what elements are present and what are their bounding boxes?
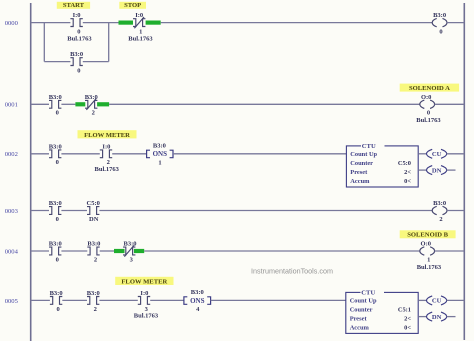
wire contact I:0/0 to STOP <box>83 22 119 24</box>
wire rung 1 rail to contact <box>31 103 49 105</box>
svg-text:1: 1 <box>158 160 161 167</box>
counter block CTU C5:1 box <box>346 292 418 333</box>
wire rung4 to solenoid B <box>144 250 420 252</box>
svg-text:0002: 0002 <box>5 151 18 158</box>
label SOLENOID B <box>400 230 456 238</box>
green highlight B3:0/3 left <box>114 249 125 253</box>
svg-text:ONS: ONS <box>190 297 205 305</box>
svg-text:0003: 0003 <box>5 208 19 215</box>
svg-text:Bul.1763: Bul.1763 <box>95 166 120 173</box>
svg-text:0: 0 <box>56 110 59 117</box>
svg-text:C5:0: C5:0 <box>398 160 411 167</box>
svg-text:0: 0 <box>77 67 80 74</box>
svg-text:B3:0: B3:0 <box>49 241 62 248</box>
wire rung 2 rail to contact <box>31 153 49 155</box>
svg-text:FLOW METER: FLOW METER <box>84 132 130 139</box>
contact FLOW METER I:0/2 <box>100 150 112 158</box>
contact B3:0/0 rung1 <box>49 100 61 108</box>
green highlight STOP left <box>119 21 134 25</box>
green highlight B3:0/2 left <box>75 102 85 106</box>
svg-text:2: 2 <box>439 216 442 223</box>
svg-text:CU: CU <box>432 151 442 158</box>
wire rung5 c3-ONS <box>150 299 183 301</box>
wire rung3 c1-c2 <box>61 210 87 212</box>
svg-text:2<: 2< <box>404 315 411 322</box>
coil SOLENOID B O:0/1 <box>420 247 435 255</box>
contact C5:0/DN <box>87 207 99 215</box>
svg-text:Bul.1763: Bul.1763 <box>128 36 153 43</box>
wire rung3 coil to rail <box>447 210 464 212</box>
wire rung 3 rail to contact <box>31 210 49 212</box>
wire ONS to CTU <box>173 153 346 155</box>
svg-text:C5:1: C5:1 <box>398 306 411 313</box>
svg-text:I:0: I:0 <box>140 290 148 297</box>
svg-text:Preset: Preset <box>350 315 368 322</box>
contact B3:0/2 (NC) rung1 <box>85 99 97 110</box>
wire rung 4 rail to contact <box>31 250 49 252</box>
svg-text:ONS: ONS <box>153 150 168 158</box>
svg-text:Bul.1763: Bul.1763 <box>134 313 159 320</box>
one-shot ONS B3:0/1 <box>147 150 173 158</box>
svg-text:0: 0 <box>56 306 59 313</box>
coil SOLENOID A O:0/0 <box>420 100 435 108</box>
coil DN rung5 <box>427 312 447 321</box>
svg-text:I:0: I:0 <box>73 12 81 19</box>
wire CTU to DN coil rung5 <box>418 316 426 318</box>
label START <box>57 2 90 9</box>
contact B3:0/3 (NC) rung4 <box>123 245 135 256</box>
svg-text:Count Up: Count Up <box>350 297 377 304</box>
contact B3:0/0 rung5 <box>50 297 62 305</box>
contact B3:0/0 seal-in <box>70 58 82 66</box>
contact START I:0/0 <box>70 19 82 27</box>
coil B3:0/0 <box>432 18 447 26</box>
svg-text:4: 4 <box>196 306 200 313</box>
wire CTU to CU coil rung5 <box>418 299 426 301</box>
wire DN coil stub <box>447 169 456 171</box>
coil B3:0/2 <box>432 206 447 214</box>
svg-text:1: 1 <box>139 28 142 35</box>
green highlight STOP right <box>146 21 161 25</box>
coil DN rung2 <box>427 166 447 175</box>
wire rung2 c2-ONS <box>112 153 146 155</box>
svg-text:B3:0: B3:0 <box>87 241 100 248</box>
branch wire right <box>83 61 109 63</box>
wire rung4 c1-c2 <box>61 250 87 252</box>
contact FLOW METER I:0/3 <box>138 297 150 305</box>
svg-text:Accum: Accum <box>350 178 370 185</box>
svg-text:Bul.1763: Bul.1763 <box>417 264 442 271</box>
svg-text:B3:0: B3:0 <box>433 200 446 207</box>
svg-text:0<: 0< <box>404 325 411 332</box>
wire rung4 c2-c3 <box>100 250 114 252</box>
branch left vertical <box>43 23 45 62</box>
green highlight B3:0/2 right <box>97 102 109 106</box>
svg-text:0005: 0005 <box>5 298 19 305</box>
label FLOW METER rung5 <box>115 277 173 285</box>
svg-text:I:0: I:0 <box>135 12 143 19</box>
svg-text:DN: DN <box>432 167 442 174</box>
branch right vertical <box>108 23 110 62</box>
label SOLENOID A <box>400 84 459 92</box>
branch wire left <box>44 61 70 63</box>
svg-text:C5:0: C5:0 <box>87 200 100 207</box>
svg-text:O:0: O:0 <box>421 94 431 101</box>
svg-text:0: 0 <box>56 216 59 223</box>
svg-text:0: 0 <box>427 110 430 117</box>
wire between contacts rung1 <box>61 103 75 105</box>
svg-text:STOP: STOP <box>124 2 141 9</box>
svg-text:B3:0: B3:0 <box>70 51 83 58</box>
contact STOP I:0/1 (NC) <box>133 17 145 28</box>
svg-text:B3:0: B3:0 <box>191 289 204 296</box>
svg-text:Counter: Counter <box>350 306 373 313</box>
wire solenoid B coil to rail <box>435 250 465 252</box>
svg-text:B3:0: B3:0 <box>433 12 446 19</box>
svg-text:START: START <box>63 2 85 9</box>
svg-text:2: 2 <box>94 256 97 263</box>
svg-text:CTU: CTU <box>361 290 375 297</box>
label FLOW METER rung2 <box>78 130 137 138</box>
svg-text:Counter: Counter <box>350 160 373 167</box>
svg-text:InstrumentationTools.com: InstrumentationTools.com <box>251 267 333 276</box>
contact B3:0/2 rung4 <box>87 247 99 255</box>
svg-text:O:0: O:0 <box>421 241 431 248</box>
wire rung5 c2-c3 <box>99 299 137 301</box>
svg-text:B3:0: B3:0 <box>49 94 62 101</box>
svg-text:FLOW METER: FLOW METER <box>121 278 167 285</box>
wire ONS to CTU rung5 <box>211 299 346 301</box>
svg-text:B3:0: B3:0 <box>50 290 63 297</box>
svg-text:0001: 0001 <box>5 102 18 109</box>
svg-text:I:0: I:0 <box>102 143 110 150</box>
svg-text:CTU: CTU <box>362 143 376 150</box>
wire to solenoid A coil <box>109 103 420 105</box>
label STOP <box>119 2 146 9</box>
one-shot ONS B3:0/4 <box>184 297 211 305</box>
wire solenoid A coil to rail <box>435 103 465 105</box>
wire DN coil stub rung5 <box>447 316 456 318</box>
svg-text:B3:0: B3:0 <box>124 241 137 248</box>
wire STOP to coil B3:0/0 <box>161 22 433 24</box>
svg-text:0: 0 <box>56 159 59 166</box>
svg-text:3: 3 <box>130 256 134 263</box>
right power rail <box>463 3 465 340</box>
wire CTU to CU coil <box>418 153 426 155</box>
svg-text:B3:0: B3:0 <box>87 290 100 297</box>
wire rung5 c1-c2 <box>62 299 87 301</box>
wire CTU to DN coil <box>418 169 426 171</box>
svg-text:0000: 0000 <box>5 20 19 27</box>
svg-text:CU: CU <box>432 298 442 305</box>
svg-text:0<: 0< <box>404 178 411 185</box>
svg-text:DN: DN <box>432 314 442 321</box>
wire rung 5 rail to contact <box>31 299 50 301</box>
svg-text:2: 2 <box>94 306 97 313</box>
svg-text:Accum: Accum <box>350 325 370 332</box>
svg-text:0: 0 <box>77 28 80 35</box>
wire rung2 c1-c2 <box>61 153 99 155</box>
wire rung 0 rail to contact I:0/0 <box>31 22 71 24</box>
svg-text:Count Up: Count Up <box>350 151 377 158</box>
svg-text:0: 0 <box>439 28 442 35</box>
contact B3:0/2 rung5 <box>87 297 99 305</box>
contact B3:0/0 rung2 <box>49 150 61 158</box>
wire CU coil to rail <box>447 153 465 155</box>
svg-text:B3:0: B3:0 <box>49 200 62 207</box>
svg-text:SOLENOID B: SOLENOID B <box>407 232 448 239</box>
wire CU coil to rail rung5 <box>447 299 465 301</box>
left power rail <box>30 3 32 341</box>
svg-text:2: 2 <box>92 110 95 117</box>
counter block CTU C5:0 box <box>346 146 418 187</box>
green highlight B3:0/3 right <box>134 249 144 253</box>
svg-text:0: 0 <box>56 256 59 263</box>
coil CU rung5 <box>427 296 447 305</box>
svg-text:DN: DN <box>89 216 99 223</box>
svg-text:B3:0: B3:0 <box>85 94 98 101</box>
svg-text:Bul.1763: Bul.1763 <box>67 36 92 43</box>
coil CU rung2 <box>427 149 447 158</box>
svg-text:Preset: Preset <box>350 169 368 176</box>
wire rung3 to coil <box>99 210 432 212</box>
svg-text:B3:0: B3:0 <box>49 143 62 150</box>
svg-text:2<: 2< <box>404 169 411 176</box>
svg-text:1: 1 <box>427 256 430 263</box>
contact B3:0/0 rung4 <box>49 247 61 255</box>
wire coil to right rail <box>447 22 464 24</box>
svg-text:Bul.1763: Bul.1763 <box>416 117 441 124</box>
svg-text:SOLENOID A: SOLENOID A <box>409 85 450 92</box>
contact B3:0/0 rung3 <box>49 207 61 215</box>
svg-text:0004: 0004 <box>5 248 19 255</box>
svg-text:B3:0: B3:0 <box>153 142 166 149</box>
